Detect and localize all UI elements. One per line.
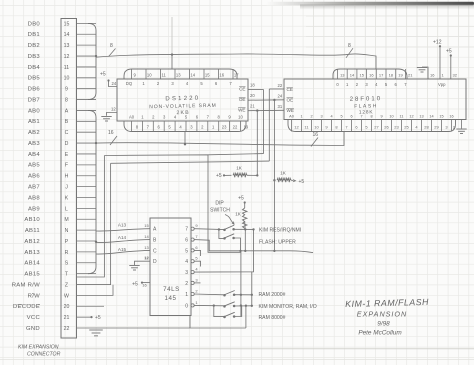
svg-text:RAM 8000#: RAM 8000# xyxy=(259,315,286,321)
node address bus to DS1220 xyxy=(184,143,186,145)
label RAM 2000# xyxy=(259,292,286,298)
svg-text:11: 11 xyxy=(64,65,69,71)
svg-text:A0: A0 xyxy=(129,115,135,120)
svg-text:Pete McCollum: Pete McCollum xyxy=(358,330,402,337)
node address bus junction at connector xyxy=(95,142,97,144)
sram U1 data pin numbers 9-17 xyxy=(134,73,240,78)
svg-text:19: 19 xyxy=(244,125,249,130)
svg-text:W: W xyxy=(64,293,69,299)
node S4 end dot xyxy=(251,305,253,307)
svg-text:Z: Z xyxy=(65,282,68,288)
svg-text:CE: CE xyxy=(239,87,245,92)
svg-text:OE: OE xyxy=(287,98,294,103)
wire decoder output 1 xyxy=(194,293,224,296)
wire OE vertical drop xyxy=(273,100,275,252)
svg-text:14: 14 xyxy=(144,234,149,239)
svg-text:24: 24 xyxy=(278,94,283,99)
svg-text:22: 22 xyxy=(233,125,238,130)
svg-text:D: D xyxy=(153,259,157,265)
sram U1 internal DQ labels xyxy=(126,81,232,86)
ground at U1 pin 12 xyxy=(101,107,117,122)
svg-text:25: 25 xyxy=(404,125,409,130)
svg-text:13: 13 xyxy=(144,245,149,250)
svg-text:R/W: R/W xyxy=(28,293,40,299)
wire decoder output 0 xyxy=(194,304,224,306)
resistor R1 1K pullup on WE xyxy=(216,166,258,180)
svg-text:22: 22 xyxy=(278,83,283,88)
svg-text:21: 21 xyxy=(408,73,413,78)
svg-text:+5: +5 xyxy=(238,196,244,202)
svg-text:WE: WE xyxy=(287,108,294,113)
svg-text:0: 0 xyxy=(185,303,188,309)
svg-text:10: 10 xyxy=(238,115,243,120)
svg-text:12: 12 xyxy=(409,115,413,119)
ground at U2 pin 16 xyxy=(417,67,435,79)
wire flash CE run toward connector xyxy=(111,161,270,163)
svg-text:20: 20 xyxy=(64,304,70,310)
svg-text:AB8: AB8 xyxy=(28,195,40,201)
svg-text:DB1: DB1 xyxy=(28,32,40,38)
wire A15 to decoder input C xyxy=(96,247,150,254)
svg-text:16: 16 xyxy=(449,115,453,119)
svg-text:H: H xyxy=(65,174,69,180)
svg-text:C: C xyxy=(65,130,69,136)
svg-text:13: 13 xyxy=(340,73,345,78)
svg-text:S: S xyxy=(65,261,69,267)
wire right vertical RAM select xyxy=(251,272,253,306)
switch S4 dip section on output 0 xyxy=(223,302,235,308)
decoder U3 input labels A B C D xyxy=(144,223,157,265)
label RAM 8000# xyxy=(259,315,286,321)
svg-text:7: 7 xyxy=(185,227,188,233)
svg-text:A: A xyxy=(65,108,69,114)
svg-text:D: D xyxy=(65,141,69,147)
svg-text:27: 27 xyxy=(374,125,379,130)
svg-text:FLASH: UPPER: FLASH: UPPER xyxy=(259,240,296,246)
svg-text:B: B xyxy=(65,119,69,125)
ground at decoder input D xyxy=(129,255,150,270)
svg-text:+5: +5 xyxy=(299,179,305,185)
title date 9/98 xyxy=(377,321,390,328)
svg-text:1: 1 xyxy=(185,292,188,298)
svg-text:DECODE: DECODE xyxy=(13,304,40,310)
svg-text:6: 6 xyxy=(185,238,188,244)
svg-text:AB7: AB7 xyxy=(28,185,40,191)
svg-text:DB0: DB0 xyxy=(28,21,41,27)
svg-text:DB2: DB2 xyxy=(28,43,40,49)
svg-text:13: 13 xyxy=(419,115,423,119)
svg-text:A15: A15 xyxy=(118,247,127,252)
svg-text:26: 26 xyxy=(384,125,389,130)
title KIM-1 RAM/FLASH xyxy=(345,297,429,309)
connector signal name labels DB0-DB7 AB0-AB15 RAM R/W R/W DECODE VCC GND xyxy=(12,21,41,332)
resistor R3 1K pullup vertical xyxy=(235,196,247,230)
wire decoder pin 8 ground run xyxy=(77,316,246,329)
flash U2 OE pin 24 label xyxy=(278,94,294,103)
bus width marker 8 near connector xyxy=(109,43,116,56)
switch S2 dip section xyxy=(223,234,235,240)
svg-text:F: F xyxy=(65,163,68,169)
svg-text:DB3: DB3 xyxy=(28,54,41,60)
svg-text:13: 13 xyxy=(176,73,181,78)
svg-text:11: 11 xyxy=(400,115,404,119)
svg-text:VCC: VCC xyxy=(27,315,41,321)
svg-text:+5: +5 xyxy=(446,49,452,55)
power +12 to U2 pin 1 Vpp xyxy=(433,40,446,88)
flash U2 internal A0-A16 labels xyxy=(289,115,453,119)
wire RAM CE run to decoder switches xyxy=(104,154,263,317)
svg-text:9: 9 xyxy=(65,87,68,93)
svg-text:31: 31 xyxy=(278,104,283,109)
svg-text:KIM RES/IRQ/NMI: KIM RES/IRQ/NMI xyxy=(259,228,301,234)
flash U2 data pin bracket and stubs xyxy=(333,69,407,79)
svg-text:15: 15 xyxy=(64,21,70,27)
node OE junction xyxy=(273,99,275,101)
svg-text:AB3: AB3 xyxy=(28,141,40,147)
svg-text:R: R xyxy=(65,250,69,256)
wire S2 left leg xyxy=(219,230,225,239)
svg-text:KIM EXPANSION: KIM EXPANSION xyxy=(18,345,59,351)
svg-text:A0: A0 xyxy=(289,115,294,119)
svg-text:21: 21 xyxy=(64,315,70,321)
node data bus to DS1220 xyxy=(171,53,173,55)
svg-text:4: 4 xyxy=(185,259,188,265)
svg-text:1K: 1K xyxy=(235,212,242,217)
svg-text:A13: A13 xyxy=(118,223,127,228)
svg-text:M: M xyxy=(64,217,68,223)
bus width marker 16 near connector xyxy=(108,130,117,145)
svg-text:29: 29 xyxy=(434,125,439,130)
wire left vertical into connector xyxy=(77,156,105,278)
svg-text:8: 8 xyxy=(110,43,113,49)
svg-text:+12: +12 xyxy=(433,40,442,46)
svg-text:17: 17 xyxy=(379,73,384,78)
node S1 pullup junction xyxy=(244,228,246,230)
svg-text:RAM R/W: RAM R/W xyxy=(12,282,40,288)
svg-text:9/98: 9/98 xyxy=(377,321,390,328)
ground at connector pin 22 xyxy=(89,330,103,336)
svg-text:EXPANSION: EXPANSION xyxy=(357,309,407,318)
svg-text:DQ: DQ xyxy=(126,81,133,86)
title EXPANSION xyxy=(357,309,407,318)
svg-text:10: 10 xyxy=(64,76,70,82)
wire gnd vertical from bottom run xyxy=(245,306,247,328)
svg-text:KIM MONITOR, RAM, I/O: KIM MONITOR, RAM, I/O xyxy=(259,304,317,310)
flash U2 label 28F010 xyxy=(350,96,383,116)
wire R/W stub from connector xyxy=(77,285,114,296)
switch S3 dip section on output 1 xyxy=(223,291,235,297)
wire OE net between U1 and U2 xyxy=(248,99,284,101)
switch S5 dip section xyxy=(223,312,235,318)
svg-text:16: 16 xyxy=(313,132,319,138)
svg-text:11: 11 xyxy=(162,73,167,78)
switch S1 dip section on output 7 xyxy=(223,225,235,231)
svg-text:GND: GND xyxy=(26,326,40,332)
wire A13 to decoder input A xyxy=(96,223,150,232)
svg-text:4: 4 xyxy=(330,115,332,119)
svg-text:21: 21 xyxy=(250,104,255,109)
svg-text:24: 24 xyxy=(112,81,117,86)
svg-text:14: 14 xyxy=(190,73,195,78)
svg-text:19: 19 xyxy=(398,73,403,78)
label KIM EXPANSION CONNECTOR xyxy=(18,345,61,358)
wire DECODE from connector xyxy=(77,305,105,307)
svg-text:15: 15 xyxy=(439,115,443,119)
svg-text:AB4: AB4 xyxy=(28,152,40,158)
sram U1 data pin bracket and stubs xyxy=(124,69,237,79)
svg-text:AB11: AB11 xyxy=(25,228,40,234)
svg-text:AB13: AB13 xyxy=(24,250,40,256)
svg-text:22: 22 xyxy=(64,326,70,332)
svg-text:OE: OE xyxy=(239,97,246,102)
svg-text:145: 145 xyxy=(164,295,176,302)
sram U1 WE pin 21 label xyxy=(238,104,255,113)
address bus bracket at connector xyxy=(88,110,96,273)
svg-text:AB6: AB6 xyxy=(28,174,40,180)
svg-text:12: 12 xyxy=(111,107,116,112)
wire A14 to decoder input B xyxy=(95,235,150,243)
wire S3 to RAM select vertical xyxy=(234,294,252,296)
svg-text:16: 16 xyxy=(219,73,224,78)
flash U2 address pin numbers xyxy=(294,125,456,130)
svg-text:32: 32 xyxy=(453,73,458,78)
svg-text:23: 23 xyxy=(222,125,227,130)
bus width marker 16 near flash xyxy=(311,132,318,147)
svg-text:15: 15 xyxy=(144,223,149,228)
svg-text:2: 2 xyxy=(310,115,312,119)
svg-text:5: 5 xyxy=(185,248,188,254)
svg-text:A14: A14 xyxy=(118,235,127,240)
svg-text:10: 10 xyxy=(314,125,319,130)
svg-text:L: L xyxy=(65,206,68,212)
svg-text:DB4: DB4 xyxy=(28,65,41,71)
power +5 to U1 pin 24 VCC xyxy=(100,72,117,87)
wire decoder output 4 hook xyxy=(194,261,200,266)
wire U2 CE vertical drop xyxy=(268,89,270,161)
svg-text:AB15: AB15 xyxy=(24,272,40,278)
svg-text:23: 23 xyxy=(394,125,399,130)
sram U1 internal A0-A10 labels xyxy=(129,115,244,120)
wire left vertical into connector RAM R/W row xyxy=(77,163,111,284)
power +5 to decoder pin 16 xyxy=(132,281,150,287)
svg-text:12: 12 xyxy=(64,54,70,60)
flash U2 28F010 body xyxy=(284,79,466,120)
wire U2 CE to vertical xyxy=(269,88,284,90)
svg-text:+5: +5 xyxy=(216,173,222,179)
node data bus junction at connector xyxy=(95,55,97,57)
svg-text:+5: +5 xyxy=(95,315,101,321)
svg-text:8: 8 xyxy=(370,115,372,119)
svg-text:K: K xyxy=(65,195,69,201)
svg-text:CE: CE xyxy=(287,87,293,92)
svg-text:2KB: 2KB xyxy=(176,110,190,116)
svg-text:2: 2 xyxy=(185,281,188,287)
svg-text:+5: +5 xyxy=(100,72,106,78)
label DIP SWITCH with arrow xyxy=(210,201,234,225)
svg-text:FLASH: FLASH xyxy=(354,103,378,109)
svg-text:10: 10 xyxy=(147,73,152,78)
svg-text:7: 7 xyxy=(360,115,362,119)
svg-text:N: N xyxy=(65,228,69,234)
svg-text:74LS: 74LS xyxy=(163,286,180,293)
wire decoder output 6 around to select line xyxy=(194,240,313,253)
svg-text:Vpp: Vpp xyxy=(438,82,446,87)
wire U1 CE vertical drop xyxy=(263,90,265,154)
svg-text:AB12: AB12 xyxy=(24,239,40,245)
svg-text:1K: 1K xyxy=(280,171,287,176)
svg-text:16: 16 xyxy=(142,283,147,288)
svg-text:18: 18 xyxy=(389,73,394,78)
svg-text:1: 1 xyxy=(300,115,302,119)
wire decoder output 2 stub xyxy=(194,282,200,284)
svg-text:J: J xyxy=(65,185,68,191)
decoder U3 output bubbles and numbers 7-0 xyxy=(185,223,198,309)
svg-text:3: 3 xyxy=(320,115,322,119)
connector pin stub wires xyxy=(77,23,97,273)
label FLASH: UPPER xyxy=(259,240,296,246)
svg-text:C: C xyxy=(153,248,157,254)
sram U1 address pin numbers xyxy=(136,125,249,130)
svg-text:DB5: DB5 xyxy=(28,76,41,82)
svg-text:15: 15 xyxy=(359,73,364,78)
svg-text:14: 14 xyxy=(429,115,433,119)
svg-text:16: 16 xyxy=(369,73,374,78)
wire address bus rise to DS1220 xyxy=(184,132,186,145)
svg-text:AB2: AB2 xyxy=(28,130,40,136)
label KIM MONITOR RAM I/O xyxy=(259,304,317,310)
svg-text:12: 12 xyxy=(144,255,149,260)
wire 8-bit data bus to memories xyxy=(96,54,376,69)
flash U2 address pin bracket and stubs xyxy=(288,120,456,132)
sram U1 label DS1220 xyxy=(149,95,217,116)
svg-text:AB9: AB9 xyxy=(28,206,40,212)
svg-text:16: 16 xyxy=(430,73,435,78)
sram U1 OE pin 20 label xyxy=(239,93,255,102)
svg-text:12: 12 xyxy=(294,125,299,130)
svg-text:1K: 1K xyxy=(236,166,243,171)
svg-text:10: 10 xyxy=(389,115,393,119)
svg-text:E: E xyxy=(65,152,69,158)
node output 0 tee xyxy=(213,304,215,306)
svg-text:9: 9 xyxy=(380,115,382,119)
svg-text:P: P xyxy=(65,239,69,245)
faint crease line above data bus xyxy=(171,17,173,54)
svg-text:3: 3 xyxy=(185,270,188,276)
wire decoder output 3 select run xyxy=(194,229,253,272)
sram U1 DS1220 body xyxy=(117,79,248,121)
ground at U2 rightmost bottom pin xyxy=(456,120,466,134)
svg-text:AB5: AB5 xyxy=(28,163,40,169)
svg-text:14: 14 xyxy=(64,32,70,38)
svg-text:16: 16 xyxy=(108,130,114,136)
decoder U3 74LS145 body xyxy=(150,218,191,316)
svg-text:17: 17 xyxy=(234,73,239,78)
wire pullup vertical continues to select line xyxy=(244,229,246,251)
svg-text:5: 5 xyxy=(340,115,342,119)
sram U1 address pin bracket and stubs xyxy=(124,121,246,132)
svg-text:28: 28 xyxy=(424,125,429,130)
wire data bus drop to DS1220 xyxy=(171,55,173,70)
flash U2 internal DQ labels xyxy=(336,82,407,87)
node output 7 tap xyxy=(218,228,220,230)
svg-text:15: 15 xyxy=(205,73,210,78)
node S3 RAM select junction xyxy=(240,294,242,296)
flash U2 data pin numbers 13-21 xyxy=(340,73,413,78)
svg-text:28F010: 28F010 xyxy=(350,96,382,103)
svg-text:18: 18 xyxy=(250,83,255,88)
wire S5 return to output 0 xyxy=(234,306,242,317)
title author Pete McCollum xyxy=(358,330,402,337)
node WE junction xyxy=(256,109,258,111)
svg-text:6: 6 xyxy=(350,115,352,119)
svg-text:DS1220: DS1220 xyxy=(165,96,200,103)
wire WE net between U1 and U2 xyxy=(248,109,284,111)
wire S2 right leg xyxy=(234,238,241,251)
wire decoder output 7 xyxy=(194,228,224,231)
wire lower branch to S5 xyxy=(214,306,225,317)
wire RAM select vertical dots xyxy=(240,304,242,306)
power +5 at connector VCC xyxy=(77,315,101,321)
svg-text:DB7: DB7 xyxy=(28,97,40,103)
wire S4 to RAM select vertical xyxy=(234,305,252,307)
svg-text:AB0: AB0 xyxy=(28,108,40,114)
wire 16-bit address bus xyxy=(96,132,344,146)
wire S1 to pullup vertical xyxy=(234,228,255,230)
flash U2 WE pin 31 label xyxy=(278,104,294,113)
svg-text:DB6: DB6 xyxy=(28,87,41,93)
svg-text:8: 8 xyxy=(348,43,351,49)
svg-text:AB14: AB14 xyxy=(24,261,40,267)
wire decoder output 5 hook xyxy=(194,250,200,256)
svg-text:+5: +5 xyxy=(132,281,138,287)
connector pin number labels xyxy=(64,21,70,332)
node S3 end dot xyxy=(251,294,253,296)
svg-text:DIP: DIP xyxy=(215,201,224,207)
resistor R2 1K pullup on OE xyxy=(273,171,304,186)
svg-text:8: 8 xyxy=(65,97,68,103)
svg-text:13: 13 xyxy=(64,43,70,49)
wire WE vertical drop to pullup xyxy=(256,111,258,176)
flash U2 CE pin 22 label xyxy=(278,83,293,92)
svg-text:SWITCH: SWITCH xyxy=(210,208,230,214)
svg-text:AB10: AB10 xyxy=(24,217,40,223)
svg-text:WE: WE xyxy=(238,108,245,113)
node select line pullup junction xyxy=(244,250,246,252)
svg-text:14: 14 xyxy=(350,73,355,78)
node S2 to select line xyxy=(239,250,241,252)
wire U1 CE to vertical xyxy=(248,89,264,91)
svg-text:20: 20 xyxy=(250,93,255,98)
node S4 crossing dot xyxy=(245,305,247,307)
bus width marker 8 near flash xyxy=(346,43,353,58)
sram U1 CE pin 18 label xyxy=(239,83,255,92)
label KIM RES/IRQ/NMI xyxy=(259,228,301,234)
svg-text:AB1: AB1 xyxy=(28,119,40,125)
svg-text:CONNECTOR: CONNECTOR xyxy=(27,351,61,357)
connector J1 KIM expansion connector body xyxy=(61,19,77,339)
decoder U3 label 74LS145 xyxy=(163,286,180,302)
svg-text:RAM 2000#: RAM 2000# xyxy=(259,292,286,298)
data bus bracket at connector xyxy=(88,23,96,99)
power +5 to U2 pin 32 xyxy=(446,49,458,80)
